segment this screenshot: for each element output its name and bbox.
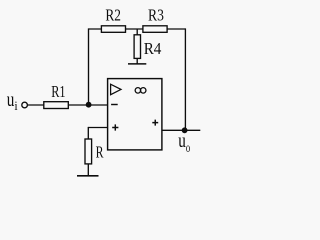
wire R4 tap from junction between R2 and R3 <box>136 29 138 35</box>
wire R to ground <box>87 164 89 176</box>
wire top feedback from node A to output node <box>89 28 186 30</box>
label u_o <box>178 128 190 156</box>
node A junction dot (inverting input node) <box>86 102 92 108</box>
svg-text:R4: R4 <box>144 39 162 58</box>
ground (below R) <box>77 175 99 177</box>
op-amp triangle symbol <box>111 84 121 95</box>
resistor R <box>85 139 92 164</box>
wire R4 to ground <box>136 58 138 64</box>
wire non-inverting input down to R <box>87 127 89 139</box>
wire input terminal to R1 <box>27 104 44 106</box>
op-amp U1 body <box>108 79 162 150</box>
wire right vertical from top wire down to output node <box>184 28 186 130</box>
svg-text:R3: R3 <box>148 6 164 25</box>
output node junction dot <box>182 127 188 133</box>
resistor R4 <box>134 35 140 59</box>
wire left vertical from top wire down to node A <box>88 28 90 104</box>
resistor R3 <box>143 26 167 33</box>
ground (below R4) <box>128 63 146 65</box>
op-amp inverting input minus sign <box>111 104 118 106</box>
op-amp output plus sign <box>152 120 158 126</box>
svg-text:o: o <box>186 141 190 156</box>
wire R1 to inverting input (node A) <box>68 104 107 106</box>
svg-text:i: i <box>14 98 18 113</box>
resistor R2 <box>101 26 125 33</box>
input terminal circle u_i <box>22 102 28 108</box>
resistor R1 <box>44 102 69 109</box>
svg-text:R: R <box>96 143 104 162</box>
op-amp infinity gain symbol <box>135 88 146 94</box>
svg-text:R1: R1 <box>51 82 65 101</box>
label u_i <box>7 87 18 113</box>
wire op-amp output to terminal <box>162 129 200 131</box>
op-amp non-inverting input plus sign <box>112 124 118 130</box>
svg-text:R2: R2 <box>105 5 121 24</box>
wire non-inverting input horizontal <box>88 127 107 129</box>
